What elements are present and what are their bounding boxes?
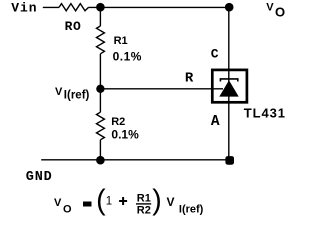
svg-text:0.1%: 0.1% bbox=[113, 50, 142, 64]
svg-text:O: O bbox=[275, 5, 285, 20]
svg-text:GND: GND bbox=[26, 170, 53, 185]
svg-text:R1: R1 bbox=[114, 35, 128, 47]
svg-text:V: V bbox=[167, 195, 175, 209]
svg-text:1: 1 bbox=[106, 196, 112, 208]
svg-text:C: C bbox=[211, 47, 219, 62]
svg-text:V: V bbox=[55, 86, 63, 98]
svg-text:R2: R2 bbox=[137, 205, 151, 217]
svg-text:V: V bbox=[54, 197, 62, 209]
svg-text:R: R bbox=[185, 71, 194, 87]
svg-text:I(ref): I(ref) bbox=[179, 203, 204, 215]
svg-text:): ) bbox=[152, 184, 162, 216]
svg-text:RO: RO bbox=[65, 19, 82, 34]
svg-text:R2: R2 bbox=[111, 116, 125, 128]
svg-text:Vin: Vin bbox=[11, 1, 37, 16]
svg-text:(: ( bbox=[96, 184, 106, 216]
svg-text:I(ref): I(ref) bbox=[64, 90, 90, 102]
svg-text:O: O bbox=[63, 204, 72, 216]
svg-text:A: A bbox=[211, 114, 220, 130]
svg-text:0.1%: 0.1% bbox=[111, 128, 139, 142]
svg-text:TL431: TL431 bbox=[244, 106, 286, 121]
svg-text:V: V bbox=[266, 2, 274, 14]
svg-text:R1: R1 bbox=[137, 193, 151, 205]
